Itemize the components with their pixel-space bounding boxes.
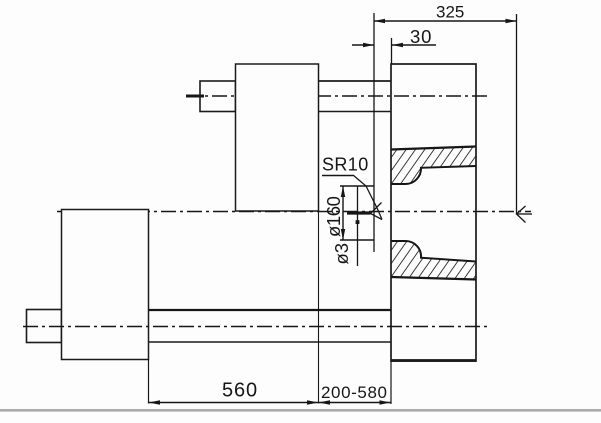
thick start dash of top centerline [186, 95, 204, 98]
bottom page rule [0, 409, 601, 412]
svg-text:30: 30 [410, 26, 432, 47]
dimension 325 line [374, 20, 517, 22]
main nozzle axis centerline [57, 211, 531, 213]
dia160 bottom arrow [341, 229, 345, 240]
dia160 dimension line [342, 186, 344, 240]
upper section outer edge [391, 147, 476, 150]
svg-text:325: 325 [436, 3, 464, 22]
svg-text:SR10: SR10 [322, 155, 369, 175]
fixed platen [391, 64, 476, 361]
extension line from body right edge x=318.5 [318, 211, 320, 404]
top centerline (upper barrel axis) [186, 95, 488, 97]
mold face indicator arrow [517, 206, 526, 223]
thick nozzle tip dash [347, 211, 371, 214]
560 right arrow [307, 400, 319, 404]
upper barrel bottom edge [319, 111, 392, 113]
lower unit stub [27, 310, 62, 343]
platen bore upper hatched section [391, 147, 476, 185]
dia3 dimension line [357, 186, 359, 266]
extension line from lower body x=148.5 [148, 360, 150, 404]
560 left arrow [149, 400, 161, 404]
30 right arrow (outside, pointing left) [392, 43, 403, 47]
SR10 leader arrowhead [371, 203, 383, 220]
svg-text:560: 560 [222, 380, 258, 402]
dia3 arrow dot [356, 220, 360, 224]
SR10 leader [353, 175, 382, 220]
325 right arrow [506, 19, 517, 23]
200-580 right arrow [380, 400, 392, 404]
svg-text:ø3: ø3 [331, 243, 352, 265]
lower section outer edge [391, 277, 476, 280]
dia160 top arrow [341, 186, 345, 197]
svg-text:200-580: 200-580 [321, 383, 388, 402]
platen bottom edge (thick) [391, 359, 476, 362]
rear stub of injection unit [200, 81, 236, 112]
30 left arrow (outside, pointing right) [363, 43, 374, 47]
upper section bore contour [391, 166, 476, 184]
extension line at right mold face x=517 [516, 14, 518, 214]
325 left arrow [374, 19, 385, 23]
lower barrel top edge [149, 309, 392, 311]
lower section bore contour [391, 241, 476, 262]
svg-text:ø160: ø160 [323, 196, 344, 237]
SR10 underline [322, 175, 353, 177]
platen bore lower hatched section [391, 241, 476, 280]
200-580 left arrow [319, 400, 331, 404]
dimension 30 left tail [352, 44, 374, 46]
lower axis centerline [23, 326, 490, 328]
dimension 30 right tail [392, 44, 436, 46]
upper barrel top edge [319, 80, 392, 82]
mold face indicator tail [517, 213, 533, 215]
extension line at nozzle tip plane x=374 [373, 13, 375, 252]
extension of platen left edge x=391 [390, 361, 392, 404]
bottom dimension line [149, 402, 392, 404]
lower barrel bottom edge [149, 341, 392, 343]
dia160 lower extension line [340, 239, 375, 241]
lower unit body [62, 210, 149, 360]
dia160 upper extension line [340, 185, 375, 187]
30 extension line x=392 [391, 38, 393, 64]
injection unit body [236, 64, 319, 211]
